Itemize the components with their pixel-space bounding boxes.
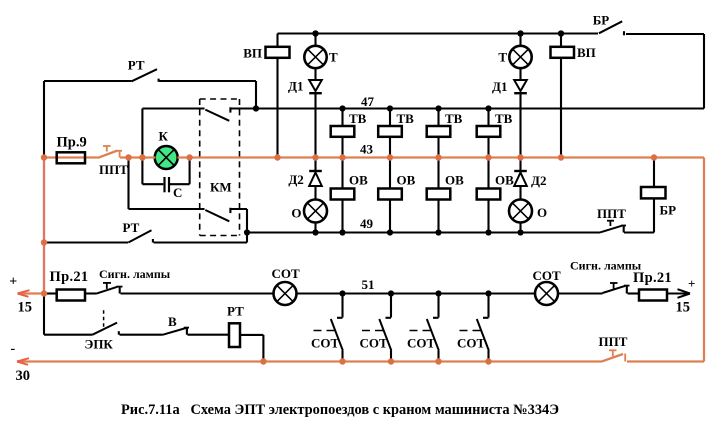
svg-text:СОТ: СОТ — [407, 336, 436, 351]
svg-text:15: 15 — [676, 300, 691, 316]
svg-text:КМ: КМ — [210, 180, 232, 195]
svg-text:ППТ: ППТ — [599, 334, 628, 349]
svg-text:ППТ: ППТ — [597, 206, 626, 221]
svg-text:БР: БР — [593, 13, 610, 28]
svg-text:Д1: Д1 — [288, 79, 303, 94]
svg-text:СОТ: СОТ — [533, 268, 562, 283]
svg-text:15: 15 — [18, 300, 33, 316]
svg-text:РТ: РТ — [123, 220, 140, 235]
svg-text:ТВ: ТВ — [349, 111, 367, 126]
svg-text:ТВ: ТВ — [397, 111, 415, 126]
svg-text:Т: Т — [329, 50, 338, 65]
svg-text:К: К — [159, 129, 169, 144]
svg-text:ТВ: ТВ — [495, 111, 513, 126]
svg-text:ТВ: ТВ — [445, 111, 463, 126]
svg-text:+: + — [688, 276, 695, 291]
svg-text:ОВ: ОВ — [397, 173, 416, 188]
svg-text:ОВ: ОВ — [349, 173, 368, 188]
svg-text:Пр.9: Пр.9 — [57, 135, 87, 151]
svg-text:Д2: Д2 — [288, 172, 303, 187]
svg-text:43: 43 — [360, 142, 374, 157]
svg-text:ОВ: ОВ — [495, 173, 514, 188]
svg-text:Д2: Д2 — [531, 173, 546, 188]
svg-text:49: 49 — [360, 216, 374, 231]
svg-text:БР: БР — [660, 203, 677, 218]
svg-text:+: + — [9, 275, 17, 290]
svg-text:ВП: ВП — [243, 46, 262, 61]
svg-text:С: С — [173, 185, 182, 200]
svg-text:Пр.21: Пр.21 — [50, 269, 89, 285]
svg-text:Т: Т — [498, 50, 507, 65]
svg-text:РТ: РТ — [227, 304, 244, 319]
svg-text:О: О — [291, 206, 301, 221]
svg-text:Рис.7.11а Схема ЭПТ электроп: Рис.7.11а Схема ЭПТ электропоездов с кра… — [121, 402, 559, 418]
svg-text:Сигн. лампы: Сигн. лампы — [99, 267, 171, 281]
svg-text:51: 51 — [362, 277, 375, 292]
svg-text:Д1: Д1 — [492, 79, 507, 94]
svg-text:О: О — [537, 205, 547, 220]
svg-text:В: В — [168, 314, 177, 329]
svg-text:РТ: РТ — [128, 58, 145, 73]
svg-text:Сигн. лампы: Сигн. лампы — [570, 259, 642, 273]
svg-text:СОТ: СОТ — [311, 336, 340, 351]
svg-text:СОТ: СОТ — [360, 336, 389, 351]
svg-text:СОТ: СОТ — [272, 266, 301, 281]
svg-text:ЭПК: ЭПК — [85, 337, 114, 352]
svg-text:СОТ: СОТ — [457, 336, 486, 351]
svg-text:ОВ: ОВ — [445, 173, 464, 188]
svg-text:ВП: ВП — [577, 45, 596, 60]
svg-text:30: 30 — [16, 368, 31, 384]
svg-text:ППТ: ППТ — [99, 162, 128, 177]
svg-text:47: 47 — [361, 94, 375, 109]
svg-text:-: - — [11, 342, 16, 357]
